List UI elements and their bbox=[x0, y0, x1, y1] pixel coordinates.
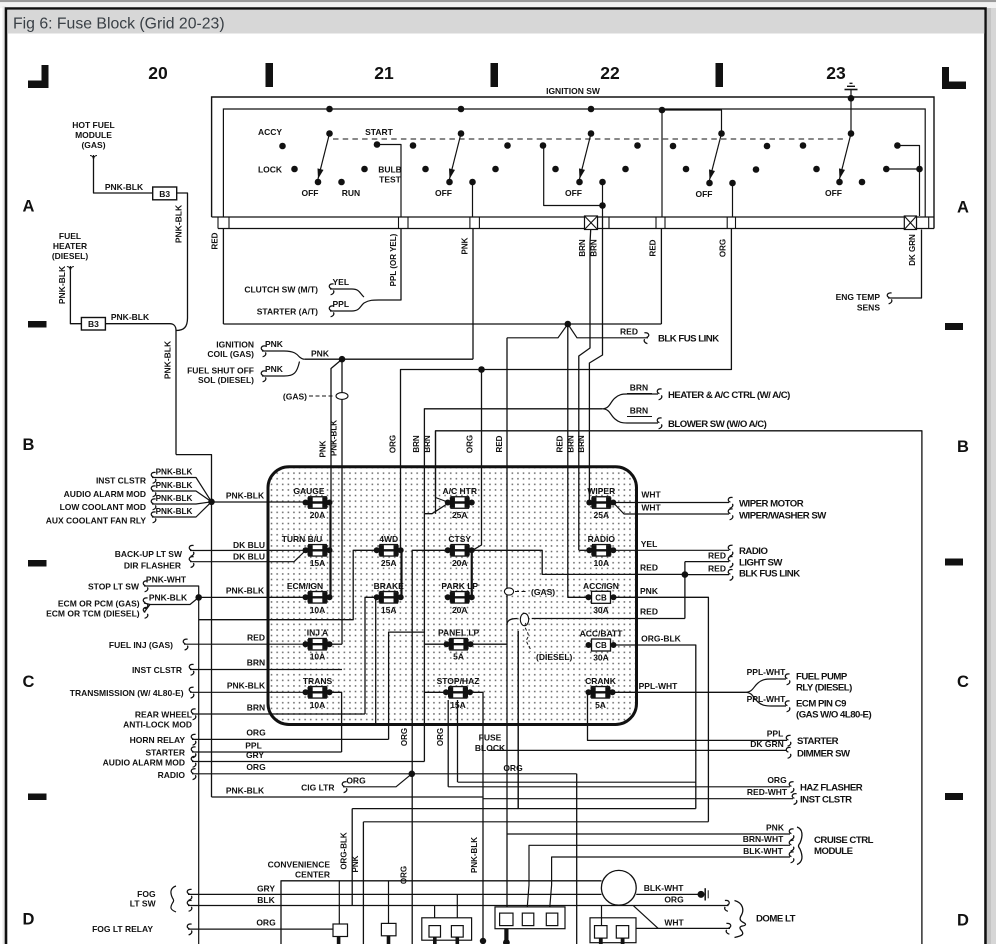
wire BRN bbox=[190, 669, 342, 671]
wire BLK-WHT cruise bbox=[549, 857, 790, 913]
svg-text:INST CLSTR: INST CLSTR bbox=[132, 665, 182, 675]
svg-text:STOP LT SW: STOP LT SW bbox=[88, 582, 140, 592]
wire PNK transfer rail bbox=[363, 821, 708, 823]
squiggle bbox=[728, 570, 733, 581]
wire GRY bbox=[192, 761, 424, 763]
connector box E bbox=[590, 918, 636, 943]
svg-text:LT SW: LT SW bbox=[130, 899, 157, 909]
svg-text:DOME LT: DOME LT bbox=[756, 914, 796, 925]
wire bus 4WD/BRAKE right bbox=[400, 550, 402, 597]
svg-text:RUN: RUN bbox=[342, 188, 360, 198]
squiggle bbox=[183, 639, 188, 650]
svg-text:PNK: PNK bbox=[311, 349, 330, 359]
svg-text:CRANK: CRANK bbox=[585, 676, 617, 686]
grid corner mark top-left bbox=[28, 65, 49, 88]
ignition switch outer box bbox=[212, 97, 934, 229]
svg-text:PNK: PNK bbox=[766, 823, 785, 833]
svg-text:RED: RED bbox=[495, 435, 504, 452]
wire BRN to BRAKE bbox=[192, 713, 365, 715]
wire CTSY right to BLK FUS LINK junction bbox=[472, 550, 685, 574]
squiggle bbox=[143, 607, 148, 618]
svg-text:(GAS): (GAS) bbox=[81, 140, 105, 150]
svg-text:HEATER: HEATER bbox=[53, 241, 87, 251]
wire BRN2 to A/C HTR bbox=[436, 431, 447, 502]
svg-text:AUX COOLANT FAN RLY: AUX COOLANT FAN RLY bbox=[46, 516, 147, 526]
wire bus CTSY/PARK LP right bbox=[471, 550, 473, 597]
svg-text:BRN: BRN bbox=[630, 383, 648, 393]
wire PNK-BLK to B3 bbox=[70, 271, 81, 324]
squiggle bbox=[789, 840, 794, 851]
wire BRN from X terminal bbox=[579, 230, 591, 551]
wire RED down-left branch bbox=[506, 338, 508, 913]
grid tick bbox=[716, 63, 724, 87]
squiggle bbox=[151, 499, 156, 510]
svg-text:DK BLU: DK BLU bbox=[233, 540, 265, 550]
squiggle bbox=[728, 509, 733, 520]
wire switch S3 to connector bbox=[602, 182, 604, 206]
wire PNK-BLK from B3 down bbox=[177, 193, 188, 318]
svg-text:BLK-WHT: BLK-WHT bbox=[743, 846, 783, 856]
svg-text:FUEL INJ (GAS): FUEL INJ (GAS) bbox=[109, 640, 173, 650]
svg-text:Fig 6: Fuse Block (Grid 20-23): Fig 6: Fuse Block (Grid 20-23) bbox=[13, 16, 225, 33]
wire PNK from connector bbox=[472, 229, 474, 360]
wire ORG-BLK transfer rail bbox=[352, 808, 696, 810]
svg-text:5A: 5A bbox=[453, 652, 464, 662]
brace DOME LT bbox=[735, 901, 746, 938]
switch S5 right contacts bbox=[894, 142, 901, 149]
grid dash mark right bbox=[945, 793, 963, 800]
svg-text:ECM OR TCM (DIESEL): ECM OR TCM (DIESEL) bbox=[46, 609, 140, 619]
svg-text:BRN: BRN bbox=[247, 658, 265, 668]
svg-text:D: D bbox=[23, 911, 35, 929]
svg-text:ORG: ORG bbox=[436, 728, 445, 746]
wire switch S2 to connector bbox=[472, 182, 474, 217]
svg-text:YEL: YEL bbox=[333, 277, 350, 287]
svg-text:20A: 20A bbox=[452, 605, 468, 615]
wire HORN RELAY riser bbox=[389, 632, 425, 739]
svg-text:BLOCK: BLOCK bbox=[475, 743, 506, 753]
svg-text:TRANS: TRANS bbox=[303, 676, 333, 686]
svg-text:ACC/IGN: ACC/IGN bbox=[583, 581, 619, 591]
svg-text:RED: RED bbox=[620, 327, 638, 337]
svg-text:CTSY: CTSY bbox=[448, 534, 471, 544]
wire PNK-BLK fan bbox=[152, 478, 212, 502]
svg-text:WIPER MOTOR: WIPER MOTOR bbox=[739, 499, 804, 510]
squiggle bbox=[789, 782, 794, 793]
svg-text:PNK-BLK: PNK-BLK bbox=[330, 420, 339, 456]
svg-text:23: 23 bbox=[826, 63, 846, 83]
wire DK GRN dimmer bbox=[489, 749, 787, 751]
wire START to connector bbox=[377, 145, 401, 218]
svg-text:COIL (GAS): COIL (GAS) bbox=[207, 349, 254, 359]
svg-text:OFF: OFF bbox=[435, 188, 452, 198]
svg-text:STARTER: STARTER bbox=[145, 748, 185, 758]
svg-text:BLOWER SW (W/O A/C): BLOWER SW (W/O A/C) bbox=[668, 419, 767, 430]
wire nest inner riser bbox=[517, 631, 519, 809]
svg-text:RLY (DIESEL): RLY (DIESEL) bbox=[796, 683, 852, 694]
squiggle bbox=[191, 747, 196, 758]
squiggle bbox=[728, 545, 733, 556]
wire end hook bbox=[67, 266, 74, 271]
squiggle bbox=[187, 900, 192, 911]
squiggle bbox=[151, 512, 156, 523]
junction bbox=[682, 571, 689, 578]
svg-text:PNK-BLK: PNK-BLK bbox=[226, 786, 265, 796]
svg-text:GRY: GRY bbox=[246, 750, 264, 760]
svg-text:YEL: YEL bbox=[641, 539, 658, 549]
wire fan to ECM PIN C9 bbox=[745, 692, 786, 706]
brace FOG LT SW bbox=[171, 886, 176, 912]
wire PNK-BLK to TRANS bbox=[190, 691, 305, 693]
svg-text:BLK FUS LINK: BLK FUS LINK bbox=[658, 334, 719, 345]
wire bus GRY riser bbox=[423, 514, 425, 762]
squiggle bbox=[191, 709, 196, 720]
svg-text:BRN-WHT: BRN-WHT bbox=[743, 834, 784, 844]
wire riser INST CLSTR bbox=[457, 700, 459, 782]
squiggle bbox=[786, 747, 791, 758]
wire ECM to junction bbox=[144, 597, 199, 612]
svg-text:22: 22 bbox=[600, 63, 620, 83]
svg-text:HEATER & A/C CTRL (W/ A/C): HEATER & A/C CTRL (W/ A/C) bbox=[668, 390, 790, 401]
svg-text:HORN RELAY: HORN RELAY bbox=[130, 735, 186, 745]
svg-text:RED: RED bbox=[640, 563, 658, 573]
svg-text:A: A bbox=[957, 199, 969, 217]
wire YEL radio bbox=[614, 549, 729, 551]
svg-text:RED: RED bbox=[211, 232, 220, 249]
wire WHT dome bbox=[636, 927, 730, 929]
svg-text:ORG: ORG bbox=[246, 762, 266, 772]
wire PANEL LP feed bbox=[424, 643, 445, 645]
svg-text:5A: 5A bbox=[595, 700, 606, 710]
svg-text:LOW COOLANT MOD: LOW COOLANT MOD bbox=[60, 502, 146, 512]
svg-text:ORG: ORG bbox=[767, 775, 787, 785]
svg-text:RED: RED bbox=[640, 607, 658, 617]
wire DK BLU bbox=[190, 549, 305, 551]
svg-text:TEST: TEST bbox=[379, 175, 402, 185]
junction bbox=[409, 771, 416, 778]
wire BRN to RADIO fuse bbox=[579, 549, 589, 551]
connector option ellipse (GAS) 2 bbox=[504, 588, 513, 595]
wire ORG bbox=[192, 738, 389, 740]
wire RED light sw bbox=[685, 561, 729, 563]
squiggle bbox=[342, 782, 347, 793]
wire PNK-BLK bottom rail bbox=[212, 796, 484, 798]
wire PNK-WHT bbox=[144, 586, 199, 944]
svg-text:25A: 25A bbox=[381, 558, 397, 568]
squiggle bbox=[789, 829, 794, 840]
svg-text:20A: 20A bbox=[310, 510, 326, 520]
squiggle bbox=[785, 701, 790, 712]
svg-text:CENTER: CENTER bbox=[295, 870, 330, 880]
svg-text:PPL: PPL bbox=[245, 741, 262, 751]
svg-text:A/C HTR: A/C HTR bbox=[443, 486, 477, 496]
svg-text:ECM PIN C9: ECM PIN C9 bbox=[796, 699, 846, 710]
svg-text:OFF: OFF bbox=[825, 188, 842, 198]
svg-text:STARTER (A/T): STARTER (A/T) bbox=[257, 307, 318, 317]
wire ORG-BLK from ACC/BATT bbox=[614, 645, 696, 809]
wire GRY fog to buzzer bbox=[188, 893, 602, 895]
wire ORG haz flasher bbox=[448, 786, 790, 788]
svg-text:RED: RED bbox=[555, 435, 564, 452]
wire PNK-BLK fan bbox=[152, 491, 212, 502]
wire PNK rail to connector riser bbox=[305, 358, 473, 360]
switch S4 contacts bbox=[659, 107, 666, 114]
wire PNK-BLK fan bbox=[152, 502, 212, 517]
svg-text:START: START bbox=[365, 127, 394, 137]
svg-text:B: B bbox=[23, 436, 35, 454]
title bar bbox=[7, 10, 984, 34]
switch S5 contacts bbox=[850, 98, 852, 133]
svg-text:FUEL: FUEL bbox=[59, 231, 81, 241]
wire ORG-BLK conv drop bbox=[351, 809, 353, 906]
svg-text:ORG: ORG bbox=[246, 728, 266, 738]
switch S1 contacts bbox=[326, 106, 333, 113]
svg-text:ORG: ORG bbox=[389, 435, 398, 453]
wire PNK-BLK to B3 bbox=[94, 160, 153, 193]
wire PPL merge bbox=[330, 300, 383, 311]
svg-text:PNK-BLK: PNK-BLK bbox=[111, 312, 150, 322]
svg-text:INJ A: INJ A bbox=[307, 628, 328, 638]
connector terminal X bbox=[585, 216, 598, 230]
wire PNK into fuse block bbox=[331, 359, 342, 502]
wire CTSY feed down bbox=[412, 550, 447, 944]
svg-text:DK GRN: DK GRN bbox=[908, 234, 917, 266]
dashed accessory position line bbox=[333, 138, 845, 140]
svg-text:10A: 10A bbox=[310, 700, 326, 710]
squiggle bbox=[786, 735, 791, 746]
svg-text:ORG: ORG bbox=[400, 728, 409, 746]
svg-text:10A: 10A bbox=[594, 558, 610, 568]
junction bbox=[195, 594, 202, 601]
squiggle bbox=[191, 769, 196, 780]
wire ORG down right of fuse block bbox=[576, 774, 578, 944]
svg-text:PPL-WHT: PPL-WHT bbox=[639, 681, 679, 691]
svg-text:FUEL PUMP: FUEL PUMP bbox=[796, 672, 848, 683]
svg-text:BRN: BRN bbox=[590, 239, 599, 257]
squiggle bbox=[151, 486, 156, 497]
grid dash mark left bbox=[28, 321, 47, 328]
svg-text:CIG LTR: CIG LTR bbox=[301, 782, 334, 792]
wire 4WD feed bbox=[199, 550, 376, 619]
svg-text:WHT: WHT bbox=[664, 917, 684, 927]
svg-text:FUEL SHUT OFF: FUEL SHUT OFF bbox=[187, 366, 254, 376]
svg-text:20A: 20A bbox=[452, 558, 468, 568]
wire STOP/HAZ right to PNK-BLK drop bbox=[471, 692, 483, 941]
wire RED from connector bbox=[660, 229, 662, 325]
squiggle bbox=[329, 284, 334, 295]
connector B3 bbox=[81, 318, 105, 331]
svg-text:RADIO: RADIO bbox=[739, 546, 768, 557]
svg-text:PPL: PPL bbox=[767, 729, 784, 739]
svg-text:PNK-BLK: PNK-BLK bbox=[163, 340, 173, 379]
squiggle bbox=[789, 852, 794, 863]
svg-text:WHT: WHT bbox=[641, 503, 661, 513]
svg-text:GAUGE: GAUGE bbox=[293, 486, 325, 496]
svg-text:BRN: BRN bbox=[578, 239, 587, 257]
squiggle bbox=[189, 664, 194, 675]
svg-text:AUDIO ALARM MOD: AUDIO ALARM MOD bbox=[103, 758, 185, 768]
svg-text:AUDIO ALARM MOD: AUDIO ALARM MOD bbox=[64, 489, 146, 499]
wire DK BLU 2 bbox=[190, 552, 305, 562]
svg-text:ORG: ORG bbox=[346, 776, 366, 786]
svg-text:PNK-BLK: PNK-BLK bbox=[226, 586, 265, 596]
svg-text:PNK-BLK: PNK-BLK bbox=[226, 491, 265, 501]
switch contacts at x=461 bbox=[458, 106, 465, 113]
wire ORG corner into connector E bbox=[601, 906, 603, 926]
wire PNK merge brace bbox=[262, 351, 305, 359]
wire PNK-BLK into fuse block bbox=[341, 359, 343, 644]
svg-text:DK GRN: DK GRN bbox=[750, 739, 784, 749]
wire RED from ellipse to right bbox=[532, 618, 685, 620]
squiggle bbox=[189, 687, 194, 698]
grid dash mark right bbox=[945, 559, 963, 566]
svg-text:C: C bbox=[23, 673, 35, 691]
connector option ellipse (GAS) bbox=[336, 393, 348, 400]
svg-text:RADIO: RADIO bbox=[588, 534, 616, 544]
svg-text:BRN: BRN bbox=[577, 435, 586, 453]
connector box D bbox=[495, 907, 565, 929]
svg-text:BLK-WHT: BLK-WHT bbox=[644, 883, 684, 893]
wire RED riser at 684.9 bbox=[684, 562, 686, 619]
wire WHT wiper/washer sw bbox=[615, 505, 729, 515]
svg-text:OFF: OFF bbox=[565, 188, 582, 198]
convenience center box bbox=[281, 881, 602, 944]
svg-text:MODULE: MODULE bbox=[814, 846, 854, 857]
wire PNK-BLK long vertical bbox=[211, 502, 213, 797]
svg-text:ORG: ORG bbox=[256, 918, 276, 928]
wire jog to junction bbox=[176, 455, 212, 502]
svg-text:C: C bbox=[957, 673, 969, 691]
svg-text:30A: 30A bbox=[593, 653, 609, 663]
svg-text:PNK-BLK: PNK-BLK bbox=[227, 681, 266, 691]
wire BRN rail to brace bbox=[424, 409, 602, 514]
svg-text:PPL-WHT: PPL-WHT bbox=[747, 667, 787, 677]
wire BLK-WHT dome bbox=[636, 893, 699, 895]
svg-text:BRN: BRN bbox=[423, 435, 432, 453]
wire RED from connector A bbox=[222, 229, 224, 325]
grid tick bbox=[491, 63, 499, 87]
squiggle bbox=[785, 674, 790, 685]
svg-text:PNK: PNK bbox=[351, 855, 360, 872]
ignition switch inner box bbox=[223, 109, 925, 217]
svg-text:ECM OR PCM (GAS): ECM OR PCM (GAS) bbox=[58, 599, 140, 609]
squiggle bbox=[189, 557, 194, 568]
svg-text:WHT: WHT bbox=[641, 490, 661, 500]
wire riser to RADIO/CIG/HAZ wire bbox=[447, 700, 449, 787]
svg-text:ECM/IGN: ECM/IGN bbox=[287, 581, 323, 591]
wire ORG from connector bbox=[401, 229, 732, 551]
svg-text:FOG LT RELAY: FOG LT RELAY bbox=[92, 924, 153, 934]
svg-text:TRANSMISSION (W/ 4L80-E): TRANSMISSION (W/ 4L80-E) bbox=[70, 688, 184, 698]
squiggle bbox=[189, 545, 194, 556]
junction bbox=[565, 321, 572, 328]
svg-text:BRAKE: BRAKE bbox=[374, 581, 405, 591]
connector option ellipse (DIESEL) bbox=[520, 613, 528, 625]
wire YEL bbox=[330, 289, 364, 297]
svg-text:PNK-WHT: PNK-WHT bbox=[146, 575, 187, 585]
wire RED-WHT inst clstr bbox=[483, 798, 793, 800]
svg-text:CRUISE CTRL: CRUISE CTRL bbox=[814, 835, 874, 846]
svg-text:20: 20 bbox=[148, 63, 168, 83]
brace CRUISE CTRL MODULE bbox=[797, 827, 802, 865]
svg-text:HOT FUEL: HOT FUEL bbox=[72, 120, 115, 130]
svg-text:TURN B/U: TURN B/U bbox=[282, 534, 323, 544]
wire TRANS to STARTER bbox=[331, 692, 342, 752]
svg-text:SENS: SENS bbox=[857, 303, 880, 313]
svg-text:ORG-BLK: ORG-BLK bbox=[641, 634, 682, 644]
svg-text:(GAS): (GAS) bbox=[531, 587, 555, 597]
svg-text:PPL (OR YEL): PPL (OR YEL) bbox=[389, 233, 398, 286]
svg-text:30A: 30A bbox=[593, 605, 609, 615]
switch contacts at x=591 bbox=[588, 106, 595, 113]
svg-text:PNK: PNK bbox=[640, 586, 659, 596]
svg-text:(GAS W/O 4L80-E): (GAS W/O 4L80-E) bbox=[796, 710, 871, 721]
svg-text:SOL (DIESEL): SOL (DIESEL) bbox=[198, 375, 254, 385]
wire PPL-WHT from CRANK bbox=[614, 691, 746, 693]
wire BRAKE drop bbox=[375, 597, 377, 724]
svg-text:(DIESEL): (DIESEL) bbox=[536, 652, 573, 662]
wire RED branch split bbox=[507, 324, 568, 338]
wire STOP/HAZ left feed bbox=[424, 691, 445, 693]
svg-text:PNK-BLK: PNK-BLK bbox=[156, 468, 193, 477]
squiggle bbox=[728, 557, 733, 568]
grid tick bbox=[266, 63, 274, 87]
wire A/C HTR feed bbox=[424, 505, 446, 514]
squiggle bbox=[191, 734, 196, 745]
svg-text:DIR FLASHER: DIR FLASHER bbox=[124, 561, 181, 571]
svg-text:10A: 10A bbox=[310, 605, 326, 615]
junction bbox=[208, 499, 215, 506]
wire RED to INJ A bbox=[184, 643, 305, 645]
svg-text:4WD: 4WD bbox=[379, 534, 398, 544]
wire BRN from switch S3 bbox=[589, 217, 602, 503]
svg-text:RADIO: RADIO bbox=[158, 770, 186, 780]
svg-text:B3: B3 bbox=[159, 189, 170, 199]
squiggle bbox=[887, 293, 892, 304]
squiggle bbox=[191, 756, 196, 767]
wire PNK-BLK to INJ A bbox=[331, 643, 343, 645]
svg-text:FOG: FOG bbox=[137, 889, 156, 899]
svg-text:RED: RED bbox=[247, 633, 265, 643]
wire RED blk fus link bbox=[685, 574, 729, 576]
svg-text:GRY: GRY bbox=[257, 884, 275, 894]
connector box B bbox=[381, 923, 396, 935]
wire PNK cruise bbox=[507, 833, 790, 835]
wire ORG CIG LTR bbox=[343, 774, 412, 787]
svg-text:CLUTCH SW (M/T): CLUTCH SW (M/T) bbox=[244, 285, 318, 295]
wire BRAKE feed corner bbox=[365, 597, 376, 714]
svg-text:ORG: ORG bbox=[503, 763, 523, 773]
svg-text:WIPER: WIPER bbox=[587, 486, 615, 496]
svg-text:LIGHT SW: LIGHT SW bbox=[739, 557, 783, 568]
svg-text:FUSE: FUSE bbox=[479, 733, 502, 743]
wire PPL bbox=[192, 751, 342, 753]
svg-text:PNK-BLK: PNK-BLK bbox=[105, 182, 144, 192]
squiggle bbox=[187, 889, 192, 900]
wire PNK-BLK main vertical bbox=[175, 331, 177, 455]
svg-text:BLK FUS LINK: BLK FUS LINK bbox=[739, 569, 800, 580]
svg-text:BRN: BRN bbox=[630, 406, 648, 416]
wire BRN-WHT cruise bbox=[527, 845, 790, 913]
svg-text:ACCY: ACCY bbox=[258, 127, 282, 137]
svg-text:BLK: BLK bbox=[257, 895, 275, 905]
svg-text:MODULE: MODULE bbox=[75, 130, 112, 140]
wire ORG rail junction bbox=[478, 366, 485, 373]
svg-text:PNK: PNK bbox=[461, 237, 470, 254]
wire GRY drop to connector bbox=[456, 894, 458, 925]
svg-text:ANTI-LOCK MOD: ANTI-LOCK MOD bbox=[123, 720, 192, 730]
squiggle bbox=[644, 333, 649, 344]
